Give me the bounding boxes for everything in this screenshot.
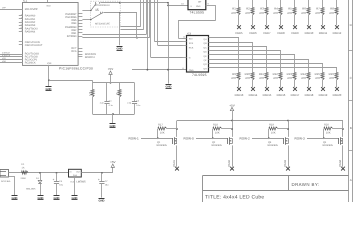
svg-text:ICSPCLK: ICSPCLK	[2, 54, 11, 57]
svg-text:QE: QE	[204, 55, 208, 58]
svg-text:R20: R20	[324, 123, 329, 126]
svg-text:PAD19: PAD19	[319, 93, 328, 97]
svg-text:G: G	[189, 56, 191, 59]
svg-text:6: 6	[21, 26, 22, 29]
svg-text:4: 4	[21, 20, 22, 23]
svg-text:NDS0605: NDS0605	[212, 144, 223, 147]
svg-text:QB: QB	[204, 42, 208, 45]
svg-text:ROW-3: ROW-3	[295, 136, 306, 140]
svg-text:1A: 1A	[22, 166, 25, 169]
svg-text:470: 470	[315, 76, 320, 80]
svg-text:QH: QH	[203, 67, 207, 70]
svg-text:10K: 10K	[271, 132, 276, 135]
svg-text:PAD1: PAD1	[173, 159, 176, 166]
svg-text:PAD17: PAD17	[291, 93, 300, 97]
svg-text:PIC16F886LCC/P30: PIC16F886LCC/P30	[59, 67, 93, 71]
svg-text:QC: QC	[203, 46, 207, 49]
svg-text:74LS595: 74LS595	[192, 73, 207, 77]
svg-text:470: 470	[259, 11, 264, 15]
svg-text:ROW-1: ROW-1	[129, 136, 140, 140]
svg-text:14: 14	[183, 36, 185, 39]
svg-text:15: 15	[95, 8, 99, 12]
svg-text:470: 470	[301, 11, 306, 15]
svg-text:MCLR/VPP: MCLR/VPP	[25, 8, 38, 11]
svg-text:PAD10: PAD10	[305, 31, 314, 35]
svg-text:QA: QA	[204, 38, 208, 41]
svg-text:470: 470	[231, 76, 236, 80]
svg-text:GND: GND	[117, 47, 123, 50]
svg-text:SDI: SDI	[189, 38, 193, 41]
svg-text:QH': QH'	[198, 1, 202, 4]
svg-text:5: 5	[21, 23, 22, 26]
svg-text:B: B	[350, 126, 352, 130]
svg-text:8: 8	[183, 67, 184, 70]
svg-text:470: 470	[259, 76, 264, 80]
svg-text:TITLE: 4x4x4 LED Cube: TITLE: 4x4x4 LED Cube	[205, 195, 264, 201]
svg-text:RC6: RC6	[71, 50, 77, 53]
svg-text:SCK: SCK	[189, 42, 194, 45]
svg-text:+: +	[53, 178, 55, 182]
svg-text:470: 470	[287, 11, 292, 15]
svg-text:0.1u: 0.1u	[109, 104, 113, 107]
svg-text:R18: R18	[213, 123, 218, 126]
svg-text:ICSPDAT: ICSPDAT	[2, 51, 11, 54]
svg-text:SMLJ30A: SMLJ30A	[26, 187, 36, 190]
svg-text:PAD16: PAD16	[277, 93, 286, 97]
svg-text:RA5/AN4: RA5/AN4	[25, 30, 36, 33]
svg-text:NDS0605: NDS0605	[268, 144, 279, 147]
svg-text:IC1: IC1	[23, 0, 28, 2]
svg-text:+5V: +5V	[229, 103, 234, 107]
svg-text:VDD: VDD	[2, 60, 7, 63]
svg-text:VDD: VDD	[46, 4, 51, 7]
svg-text:10K: 10K	[160, 132, 165, 135]
svg-text:ROW-2: ROW-2	[240, 136, 251, 140]
svg-text:NDS0605: NDS0605	[157, 144, 168, 147]
svg-text:OSC2/CLKOUT: OSC2/CLKOUT	[25, 44, 43, 47]
svg-text:PAD3: PAD3	[284, 159, 287, 166]
svg-text:470: 470	[315, 11, 320, 15]
svg-text:2A50: 2A50	[21, 177, 27, 180]
svg-text:PAD12: PAD12	[333, 31, 342, 35]
svg-text:PAD15: PAD15	[263, 93, 272, 97]
svg-text:GND: GND	[99, 200, 105, 202]
svg-text:470: 470	[245, 11, 250, 15]
svg-text:PAD6: PAD6	[249, 31, 257, 35]
svg-text:PAD13: PAD13	[235, 93, 244, 97]
svg-text:PAD20: PAD20	[333, 93, 342, 97]
svg-text:PAD2: PAD2	[228, 159, 231, 166]
svg-text:SDI/RC4: SDI/RC4	[85, 56, 95, 59]
svg-text:PAD8: PAD8	[277, 31, 285, 35]
svg-text:470: 470	[245, 76, 250, 80]
svg-text:NDS0605: NDS0605	[323, 144, 334, 147]
svg-text:3: 3	[21, 17, 22, 20]
svg-text:470: 470	[287, 76, 292, 80]
svg-text:ROW-0: ROW-0	[184, 136, 195, 140]
svg-text:IC3: IC3	[187, 32, 192, 35]
svg-text:470: 470	[273, 76, 278, 80]
svg-text:470: 470	[231, 11, 236, 15]
svg-text:+5V: +5V	[108, 67, 113, 71]
svg-text:INT/RB0: INT/RB0	[67, 35, 77, 38]
svg-text:PAD7: PAD7	[263, 31, 271, 35]
svg-text:470: 470	[329, 11, 334, 15]
svg-text:QG: QG	[203, 63, 207, 66]
svg-text:RC3/SCK: RC3/SCK	[25, 61, 36, 64]
svg-text:R17: R17	[158, 123, 163, 126]
svg-text:DRAWN BY:: DRAWN BY:	[292, 182, 320, 187]
svg-text:10K: 10K	[215, 132, 220, 135]
svg-text:PAD14: PAD14	[249, 93, 258, 97]
svg-text:A: A	[350, 178, 352, 182]
svg-text:VSS: VSS	[47, 62, 52, 65]
svg-text:2: 2	[21, 13, 22, 16]
svg-text:PAD11: PAD11	[319, 31, 328, 35]
svg-text:R19: R19	[269, 123, 274, 126]
svg-text:DCJ136A: DCJ136A	[1, 180, 11, 183]
svg-text:PAD18: PAD18	[305, 93, 314, 97]
svg-text:RCK: RCK	[189, 47, 194, 50]
svg-text:MTS202ELF3: MTS202ELF3	[95, 4, 110, 7]
svg-text:7: 7	[21, 29, 22, 32]
svg-text:QD: QD	[203, 51, 207, 54]
svg-text:PAD9: PAD9	[291, 31, 299, 35]
svg-text:4.7K: 4.7K	[89, 91, 92, 96]
svg-text:MTS202ELFE: MTS202ELFE	[95, 22, 110, 25]
svg-text:+: +	[98, 177, 100, 181]
svg-text:470: 470	[301, 76, 306, 80]
svg-text:PAD4: PAD4	[339, 159, 342, 166]
svg-text:GND: GND	[73, 174, 78, 177]
svg-text:74LS595: 74LS595	[190, 10, 205, 14]
svg-text:470: 470	[329, 76, 334, 80]
svg-text:0.1u: 0.1u	[136, 104, 140, 107]
svg-text:470: 470	[273, 11, 278, 15]
svg-text:GND: GND	[196, 5, 201, 8]
svg-text:+5V: +5V	[110, 160, 115, 164]
svg-text:LM7805: LM7805	[77, 181, 87, 184]
svg-text:PAD5: PAD5	[235, 31, 243, 35]
svg-text:GND: GND	[189, 69, 194, 72]
svg-text:RB4: RB4	[72, 22, 77, 25]
svg-text:10K: 10K	[326, 132, 331, 135]
